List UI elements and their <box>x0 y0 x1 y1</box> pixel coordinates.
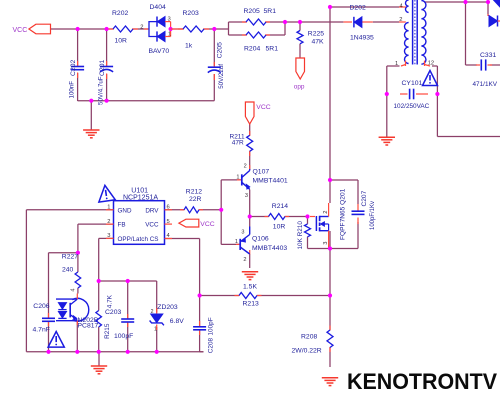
svg-text:R208: R208 <box>301 333 317 340</box>
wire U101 pin4 net down to R213 and C208 <box>165 239 204 352</box>
capacitor C208 <box>193 317 214 353</box>
svg-text:22R: 22R <box>189 196 202 203</box>
wire MOSFET drain source rail <box>329 231 331 330</box>
svg-text:MMBT4403: MMBT4403 <box>252 245 287 252</box>
power flag VCC <box>13 24 51 34</box>
wire ZD203 bottom <box>156 327 158 352</box>
svg-text:5R1: 5R1 <box>266 46 279 53</box>
wire C331 branch <box>466 2 500 65</box>
wire R213 row <box>200 295 330 297</box>
resistor R205 <box>242 8 276 25</box>
warning triangle C206 <box>48 332 64 348</box>
wire gate node to MOSFET <box>285 217 308 224</box>
wire C201 branch <box>106 29 108 101</box>
svg-text:2: 2 <box>243 257 246 263</box>
IC U101 NCP1251A <box>106 187 172 244</box>
svg-text:2: 2 <box>140 25 143 31</box>
MOSFET Q201 FQPF7N65 <box>310 188 347 248</box>
node secondary rail dots <box>463 0 490 4</box>
wire R227 leads <box>77 253 79 294</box>
svg-text:4.7K: 4.7K <box>107 294 114 308</box>
svg-text:1.5K: 1.5K <box>243 284 257 291</box>
svg-text:Q107: Q107 <box>253 168 270 175</box>
svg-text:C331: C331 <box>480 52 496 59</box>
wire base bus <box>221 180 241 245</box>
svg-text:3: 3 <box>168 16 171 22</box>
svg-text:BAV70: BAV70 <box>149 48 170 55</box>
junction dot D404 output <box>169 27 184 31</box>
ground Q106 collector <box>242 272 258 280</box>
capacitor C206 <box>33 303 56 334</box>
diode D202 1N4935 <box>343 5 374 42</box>
transistor Q107 MMBT4401 <box>236 164 287 200</box>
svg-text:R227: R227 <box>62 254 78 261</box>
diode secondary right edge <box>488 0 500 27</box>
wire R208 to ground <box>329 348 331 368</box>
ground bottom bus <box>91 366 107 374</box>
resistor R225 <box>297 20 324 46</box>
svg-text:C205: C205 <box>217 42 224 58</box>
node MOSFET gate <box>305 214 309 218</box>
svg-text:4.7nF: 4.7nF <box>33 326 50 333</box>
wire R210 bottom to source node <box>308 237 331 249</box>
capacitor CY101 <box>385 80 440 110</box>
wire VCC rail to R202 and D404 <box>51 28 150 30</box>
wire U101 pin3 OPP net <box>99 238 114 281</box>
svg-text:R214: R214 <box>272 203 288 210</box>
transformer T <box>395 0 434 67</box>
resistor R204 <box>242 32 278 53</box>
svg-text:VCC: VCC <box>13 27 28 34</box>
svg-text:3: 3 <box>245 193 248 199</box>
svg-text:50V/22uf: 50V/22uf <box>218 64 225 89</box>
svg-text:5: 5 <box>167 219 170 225</box>
svg-text:Q106: Q106 <box>252 236 269 243</box>
svg-text:C206: C206 <box>33 303 49 310</box>
svg-text:100pF/1Kv: 100pF/1Kv <box>370 201 376 230</box>
svg-text:VCC: VCC <box>256 104 270 111</box>
power flag VCC pin5 <box>179 219 215 228</box>
wire C205 branch vertical <box>213 29 215 101</box>
svg-text:47K: 47K <box>312 39 325 46</box>
wire snubber box C207 <box>330 180 358 249</box>
wire VCC arrow to R211 <box>249 124 251 135</box>
svg-text:2: 2 <box>244 164 247 170</box>
wire FB node to C206 branch <box>49 253 78 352</box>
wire bottom ground bus <box>26 352 203 366</box>
wire R211 to Q107 collector <box>249 151 251 169</box>
svg-text:R213: R213 <box>243 301 259 308</box>
svg-text:D404: D404 <box>150 4 166 11</box>
resistor R211 <box>230 131 253 156</box>
wire D404 to R203 to C205 node <box>171 28 229 30</box>
warning triangle U101 <box>97 184 116 202</box>
svg-text:3: 3 <box>241 229 244 235</box>
svg-text:1: 1 <box>107 205 110 211</box>
node driver output <box>248 214 252 218</box>
wire opto emitter to bus <box>76 321 78 352</box>
svg-text:471/1KV: 471/1KV <box>473 81 498 88</box>
capacitor C331 <box>473 52 498 88</box>
svg-text:R203: R203 <box>183 10 199 17</box>
wire node to D202 and transformer pin 2 <box>285 21 399 23</box>
svg-text:102/250VAC: 102/250VAC <box>394 103 430 110</box>
svg-text:1: 1 <box>235 239 238 245</box>
svg-text:12: 12 <box>428 61 434 67</box>
resistor R202 <box>108 10 138 44</box>
svg-text:2: 2 <box>399 17 402 23</box>
svg-text:MMBT4401: MMBT4401 <box>253 178 288 185</box>
resistor R227 <box>62 254 81 292</box>
node VCC rail dots <box>76 27 109 31</box>
svg-text:240: 240 <box>62 267 74 274</box>
svg-text:1: 1 <box>168 32 171 38</box>
logo KENOTRONTV <box>347 369 497 394</box>
node bottom bus dots <box>46 350 158 354</box>
svg-text:R212: R212 <box>186 189 202 196</box>
svg-text:OPP/Latch CS: OPP/Latch CS <box>118 236 159 243</box>
wire CY101 box <box>387 66 500 137</box>
svg-text:1: 1 <box>154 327 157 333</box>
svg-text:VCC: VCC <box>200 221 214 228</box>
resistor R215 <box>96 294 114 339</box>
node after R204 R205 <box>283 20 287 24</box>
wire top rail to transformer pin 4 <box>330 6 399 8</box>
svg-text:3: 3 <box>107 233 110 239</box>
svg-text:1N4935: 1N4935 <box>350 34 374 41</box>
capacitor C207 <box>352 190 377 230</box>
wire C203 branch <box>127 281 129 352</box>
svg-text:KENOTRONTV: KENOTRONTV <box>347 369 497 394</box>
svg-text:R225: R225 <box>308 30 324 37</box>
svg-text:DRV: DRV <box>145 207 159 214</box>
svg-text:10K R210: 10K R210 <box>297 221 304 250</box>
svg-text:4: 4 <box>71 289 77 292</box>
ground CY101 <box>379 137 395 145</box>
svg-text:R205: R205 <box>244 8 260 15</box>
zener diode ZD203 <box>150 304 185 333</box>
capacitor C205 <box>208 42 225 89</box>
svg-text:100pF: 100pF <box>114 333 133 340</box>
svg-text:2W/0.22R: 2W/0.22R <box>292 347 322 354</box>
resistor R210 <box>297 221 311 250</box>
svg-text:1k: 1k <box>185 43 193 50</box>
node drain rail top <box>328 5 332 9</box>
svg-text:FQPF7N65 Q201: FQPF7N65 Q201 <box>340 188 347 240</box>
diode D404 BAV70 <box>140 4 171 55</box>
svg-text:FB: FB <box>118 222 126 229</box>
node drain <box>328 178 332 182</box>
node FB <box>76 251 80 255</box>
svg-text:6: 6 <box>167 205 170 211</box>
optocoupler N202B PC817 <box>56 294 99 330</box>
wire node to Q106 emitter <box>249 217 251 227</box>
wire C202 branch <box>77 29 79 101</box>
capacitor C203 <box>105 309 134 340</box>
resistor R213 <box>235 284 262 308</box>
svg-text:R215: R215 <box>104 323 111 339</box>
svg-text:1: 1 <box>395 61 398 67</box>
svg-text:GND: GND <box>118 207 132 214</box>
node C205 tap <box>212 27 216 31</box>
svg-text:R204: R204 <box>244 46 260 53</box>
svg-text:C202: C202 <box>70 60 77 76</box>
resistor R203 <box>178 10 209 49</box>
node R213 source rail <box>328 293 332 297</box>
svg-text:C207: C207 <box>361 190 368 206</box>
wire OPP bus <box>99 281 157 313</box>
svg-text:50V/4.7uF: 50V/4.7uF <box>98 76 105 105</box>
wire R204 R205 parallel loop <box>229 22 286 35</box>
svg-text:CY101: CY101 <box>402 80 423 87</box>
svg-text:3: 3 <box>323 242 329 245</box>
resistor R212 <box>180 189 203 213</box>
svg-text:10R: 10R <box>273 224 286 231</box>
svg-text:C208: C208 <box>208 337 215 353</box>
wire U101 pin2 FB net <box>78 224 114 253</box>
capacitor C202 <box>69 60 85 99</box>
wire Q107 emitter to node <box>249 190 251 217</box>
svg-text:R202: R202 <box>112 10 128 17</box>
svg-text:2: 2 <box>323 211 329 214</box>
svg-text:4: 4 <box>399 3 403 9</box>
wire ground bus under C202 C201 C205 <box>78 101 215 130</box>
wire R225 tap <box>299 22 301 58</box>
svg-text:VCC: VCC <box>145 222 159 229</box>
svg-text:6.8V: 6.8V <box>170 318 184 325</box>
wire emitter node to R214 <box>250 216 269 218</box>
svg-text:2: 2 <box>107 219 110 225</box>
svg-text:1: 1 <box>236 174 239 180</box>
node OPP bus <box>97 279 130 283</box>
wire secondary top rail <box>424 1 490 3</box>
svg-text:100pF: 100pF <box>208 317 215 335</box>
svg-text:10R: 10R <box>115 37 128 44</box>
svg-text:opp: opp <box>294 84 305 91</box>
svg-text:2: 2 <box>151 309 154 315</box>
resistor R214 <box>265 203 290 230</box>
svg-text:C203: C203 <box>105 309 121 316</box>
wire R215 branch <box>98 281 100 352</box>
power flag VCC driver <box>245 102 270 124</box>
node source <box>328 246 332 250</box>
power flag opp <box>294 58 305 91</box>
svg-text:C201: C201 <box>99 60 106 76</box>
svg-text:PC817: PC817 <box>78 322 99 329</box>
wire right edge diode branch <box>487 2 489 14</box>
svg-text:47R: 47R <box>232 140 244 147</box>
transistor Q106 MMBT4403 <box>235 227 287 264</box>
svg-text:D202: D202 <box>350 5 366 12</box>
wire U101 pin1 GND net <box>26 210 113 352</box>
ground primary filter <box>83 99 109 138</box>
wire long vertical drain rail <box>329 7 331 203</box>
wire Q106 collector to ground <box>249 254 251 268</box>
node base bus <box>219 208 223 212</box>
ground R208 <box>322 378 338 386</box>
warning triangle CY101 <box>423 71 438 86</box>
resistor R208 <box>292 326 334 355</box>
capacitor C201 <box>98 60 114 105</box>
svg-text:100nF: 100nF <box>69 81 76 99</box>
svg-text:NCP1251A: NCP1251A <box>123 194 158 201</box>
wire DRV to R212 to base bus <box>165 209 222 211</box>
svg-text:ZD203: ZD203 <box>157 304 178 311</box>
node R213 C208 <box>198 293 202 297</box>
svg-text:5R1: 5R1 <box>264 8 277 15</box>
